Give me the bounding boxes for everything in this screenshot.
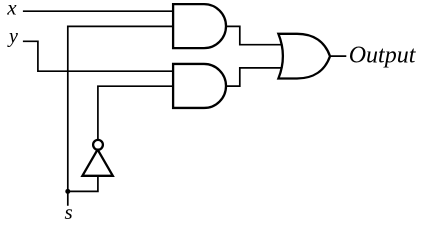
AND gate U2 [173, 64, 226, 108]
inverter U4 bubble [93, 140, 103, 150]
inverter U4 triangle [82, 150, 112, 176]
wire s junction to inverter input [68, 176, 98, 192]
svg-text:s: s [65, 200, 73, 224]
wire OR output [329, 55, 346, 57]
wire s vertical and top branch to AND1 [68, 26, 174, 205]
junction dot on s [65, 189, 70, 194]
wire x input [23, 10, 174, 12]
OR gate U3 [278, 34, 330, 79]
wire inverter output to AND2 [98, 86, 174, 145]
svg-text:x: x [6, 0, 17, 20]
AND gate U1 [173, 4, 226, 48]
svg-text:Output: Output [349, 42, 417, 68]
svg-text:y: y [7, 26, 18, 48]
wire y input [23, 41, 174, 71]
wire AND2 output to OR [224, 68, 284, 86]
wire AND1 output to OR [224, 26, 284, 44]
